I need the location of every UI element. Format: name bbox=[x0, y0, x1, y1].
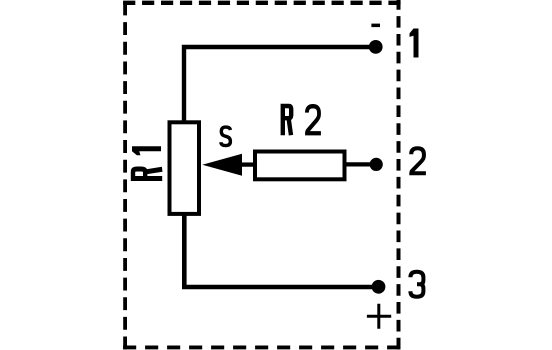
wire: terminal 1 to R1 top bbox=[184, 47, 376, 122]
polarity minus sign bbox=[371, 24, 380, 28]
wiper label s bbox=[221, 127, 231, 146]
node terminal 3 dot bbox=[372, 280, 386, 294]
wire: R2 to terminal 2 bbox=[346, 162, 376, 166]
resistor R2 body bbox=[255, 152, 345, 180]
pin label 3 bbox=[410, 272, 423, 297]
enclosure dashed border left bbox=[123, 3, 127, 350]
wiper arrow of R1 bbox=[202, 154, 242, 176]
pin label 2 bbox=[411, 148, 426, 173]
enclosure dashed border right bbox=[397, 0, 401, 349]
node terminal 1 dot bbox=[369, 40, 383, 54]
label R2 bbox=[283, 106, 291, 135]
pin label 1 bbox=[410, 29, 419, 58]
label R1 (rotated) bbox=[133, 169, 162, 178]
wire: wiper to R2 bbox=[240, 162, 255, 166]
enclosure dashed border top bbox=[123, 1, 401, 5]
enclosure dashed border bottom bbox=[123, 345, 401, 349]
node terminal 2 dot bbox=[370, 158, 383, 171]
polarity plus sign bbox=[367, 304, 391, 329]
wire: R1 bottom to terminal 3 bbox=[184, 214, 378, 287]
potentiometer R1 body bbox=[170, 122, 200, 214]
